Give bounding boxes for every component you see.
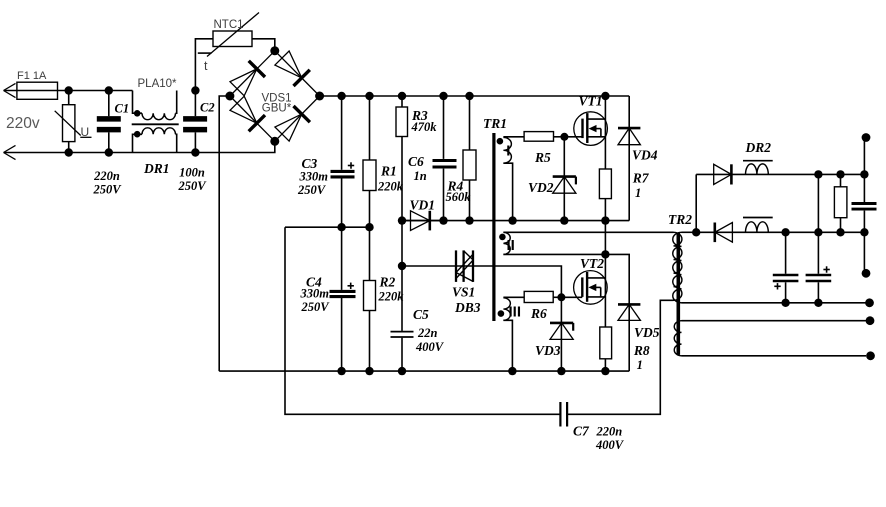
capacitor C7 220n 400V coupling bbox=[285, 227, 674, 452]
svg-text:R6: R6 bbox=[530, 306, 547, 321]
capacitor C2 100n 250V bbox=[177, 91, 214, 194]
svg-text:DR2: DR2 bbox=[745, 140, 772, 155]
terminal: secondary2 lead B bbox=[866, 351, 875, 360]
svg-text:330m: 330m bbox=[300, 287, 330, 301]
wire: AC neutral bottom with input arrow, up to bridge AC2 corner bbox=[4, 141, 275, 159]
phase dot: TR1 winding III bbox=[498, 310, 505, 317]
wire: VT1 drain-source vertical bbox=[604, 96, 606, 221]
filter choke DR2 lower bbox=[743, 218, 773, 233]
svg-text:t: t bbox=[204, 59, 208, 73]
resistor R7 1 bbox=[599, 169, 649, 200]
transformer TR1 core bbox=[483, 116, 507, 321]
node: bridge AC1 corner (top) bbox=[270, 46, 279, 55]
svg-text:VS1: VS1 bbox=[452, 285, 475, 300]
node: C1 top junction bbox=[105, 86, 113, 94]
resistor R1 220k bbox=[363, 96, 404, 227]
resistor output load bbox=[834, 174, 847, 232]
phase dot: DR1 top winding bbox=[134, 110, 141, 117]
capacitor C1 220n 250V bbox=[92, 91, 129, 197]
thermistor NTC1 with t mark bbox=[198, 13, 259, 74]
svg-text:C5: C5 bbox=[413, 307, 429, 322]
svg-text:DB3: DB3 bbox=[454, 300, 481, 315]
svg-text:TR1: TR1 bbox=[483, 116, 507, 131]
svg-text:GBU*: GBU* bbox=[262, 103, 292, 115]
node: C2 top junction with NTC branch bbox=[191, 86, 199, 94]
wire: AC line top segment with input arrow bbox=[4, 83, 133, 97]
wire: output positive branch bbox=[696, 173, 864, 175]
svg-text:C7: C7 bbox=[573, 424, 590, 439]
fuse F1 1A bbox=[17, 70, 58, 99]
node: bottom bus junctions bbox=[337, 367, 609, 375]
node: +rail junctions (C3,R1,R3,C6,R4,VT1 drain) bbox=[337, 92, 609, 100]
svg-text:U: U bbox=[81, 125, 90, 139]
phase dot: TR1 winding I bbox=[497, 138, 504, 145]
node: bridge positive corner (right) bbox=[315, 92, 324, 101]
node: fuse-varistor junction top bbox=[65, 86, 73, 94]
svg-text:R2: R2 bbox=[379, 275, 396, 290]
wire: NTC1 left lead from line bbox=[195, 39, 213, 91]
diode VD5 bbox=[618, 304, 660, 340]
wire: bridge negative to bottom bus bbox=[219, 96, 230, 371]
node: midpoint junction C3/C4 bbox=[337, 223, 345, 231]
svg-text:220n: 220n bbox=[596, 425, 623, 439]
node: C1 bottom junction bbox=[105, 148, 113, 156]
svg-text:220k: 220k bbox=[377, 180, 404, 194]
svg-text:R5: R5 bbox=[534, 150, 551, 165]
svg-text:250V: 250V bbox=[301, 300, 331, 314]
resistor R4 560k bbox=[446, 96, 477, 221]
node: winding II bottom / VT2 drain junction bbox=[601, 250, 609, 258]
diac VS1 DB3 trigger branch bbox=[402, 250, 561, 315]
diode VD7 output lower bbox=[715, 223, 733, 243]
svg-text:1: 1 bbox=[635, 186, 641, 200]
svg-text:PLA10*: PLA10* bbox=[138, 78, 178, 90]
node: C2 bottom junction bbox=[191, 148, 199, 156]
resistor R8 1 bbox=[600, 327, 650, 372]
svg-text:R7: R7 bbox=[632, 171, 650, 186]
wire: capacitor midpoint bus bbox=[285, 226, 370, 228]
svg-text:DR1: DR1 bbox=[143, 161, 170, 176]
svg-text:II: II bbox=[507, 237, 515, 254]
transformer TR2 primary winding bbox=[674, 232, 682, 300]
node: VT1 gate junction bbox=[560, 133, 568, 141]
resistor R3 470k bbox=[396, 96, 437, 221]
node: output branch junctions bbox=[781, 170, 868, 307]
svg-text:100n: 100n bbox=[179, 166, 205, 180]
svg-text:250V: 250V bbox=[297, 183, 327, 197]
phase dot: DR1 bottom winding bbox=[134, 131, 141, 138]
node: varistor bottom junction bbox=[65, 148, 73, 156]
capacitor output HF bbox=[852, 138, 877, 274]
svg-text:III: III bbox=[509, 304, 522, 321]
svg-text:1n: 1n bbox=[414, 169, 427, 183]
node: secondary tap junction bbox=[692, 228, 700, 236]
svg-text:250V: 250V bbox=[92, 183, 122, 197]
svg-text:C2: C2 bbox=[200, 101, 215, 115]
wire: half-bridge upper cell bottom wire bbox=[402, 220, 629, 222]
svg-text:VD2: VD2 bbox=[528, 180, 554, 195]
MOSFET VT2 bbox=[561, 256, 607, 304]
zener diode VD2 bbox=[528, 137, 576, 221]
diode VD6 output upper bbox=[714, 164, 732, 184]
transformer TR2 secondary winding 1 bbox=[673, 232, 866, 302]
svg-text:400V: 400V bbox=[415, 340, 445, 354]
svg-text:560k: 560k bbox=[446, 190, 472, 204]
wire: VD5 branch bbox=[605, 254, 629, 371]
svg-text:400V: 400V bbox=[595, 438, 625, 452]
wire: NTC1 right lead to bridge AC1 corner bbox=[252, 39, 275, 51]
svg-text:1: 1 bbox=[637, 358, 643, 372]
svg-text:250V: 250V bbox=[177, 179, 207, 193]
transformer TR2 secondary winding 2 bbox=[674, 321, 866, 356]
capacitor C3 330m 250V electrolytic bbox=[297, 96, 355, 227]
svg-text:VT1: VT1 bbox=[579, 94, 603, 109]
svg-text:VD3: VD3 bbox=[535, 343, 561, 358]
wire: half-bridge midpoint link bbox=[604, 221, 606, 255]
terminal: +V output bbox=[862, 133, 871, 142]
svg-text:22n: 22n bbox=[417, 326, 438, 340]
svg-text:R1: R1 bbox=[380, 164, 397, 179]
svg-text:220n: 220n bbox=[93, 169, 120, 183]
svg-text:VT2: VT2 bbox=[580, 256, 604, 271]
common-mode choke DR1 PLA10* bbox=[132, 78, 179, 176]
node: VT2 gate junction bbox=[557, 293, 565, 301]
phase dot: TR1 winding II bbox=[499, 234, 506, 241]
svg-text:F1 1A: F1 1A bbox=[17, 70, 47, 82]
wire: +DC rail bbox=[320, 95, 630, 97]
terminal: secondary2 lead A bbox=[866, 316, 875, 325]
transformer TR1 winding I bbox=[503, 137, 523, 221]
svg-text:C6: C6 bbox=[408, 154, 424, 169]
node: bridge negative corner (left) bbox=[225, 92, 234, 101]
svg-text:330m: 330m bbox=[299, 170, 329, 184]
wire: output lower branch bbox=[696, 231, 864, 233]
varistor RU with U label bbox=[55, 91, 92, 153]
transformer TR2 core bbox=[668, 212, 692, 355]
svg-text:I: I bbox=[506, 143, 510, 160]
capacitor C6 1n bbox=[408, 96, 457, 221]
svg-text:470k: 470k bbox=[411, 120, 438, 134]
wire: VT2 drain-source vertical bbox=[604, 254, 606, 371]
diode VD1 bbox=[402, 198, 444, 231]
node: wire221 junctions (C6,R4,winding I,VD2,R7) bbox=[439, 216, 609, 224]
transformer TR1 winding II (feedback) bbox=[503, 232, 673, 254]
terminal: output return bbox=[862, 269, 871, 278]
svg-text:VD5: VD5 bbox=[634, 325, 660, 340]
capacitor C4 330m 250V electrolytic bbox=[300, 227, 356, 371]
node: VD1 anode / R3-C5 junction bbox=[398, 216, 406, 224]
electrolytic capacitor output A bbox=[773, 232, 799, 302]
node: midpoint junction R1/R2 bbox=[365, 223, 373, 231]
svg-text:VD1: VD1 bbox=[410, 198, 436, 213]
resistor R2 220k bbox=[364, 227, 405, 371]
resistor R6 bbox=[524, 291, 561, 321]
filter choke DR2 upper bbox=[743, 140, 773, 174]
wire: negative DC bus bbox=[219, 370, 629, 372]
electrolytic capacitor output B bbox=[806, 174, 832, 302]
bridge rectifier VDS1 GBU* bbox=[230, 51, 320, 142]
terminal: secondary1 ground bbox=[865, 298, 874, 307]
capacitor C5 22n 400V bbox=[391, 221, 445, 372]
diode VD4 bbox=[618, 96, 658, 221]
svg-text:C1: C1 bbox=[115, 102, 130, 116]
transformer TR1 winding III bbox=[503, 297, 524, 371]
resistor R5 bbox=[524, 132, 564, 165]
svg-text:R8: R8 bbox=[633, 343, 650, 358]
svg-text:220k: 220k bbox=[378, 290, 405, 304]
node: diac junction on R3/C5 line bbox=[398, 262, 406, 270]
node: bridge AC2 corner (bottom) bbox=[270, 137, 279, 146]
svg-text:NTC1: NTC1 bbox=[214, 19, 244, 31]
MOSFET VT1 bbox=[564, 94, 607, 146]
svg-text:TR2: TR2 bbox=[668, 212, 692, 227]
svg-text:VD4: VD4 bbox=[632, 148, 658, 163]
wire: rectifier branch riser bbox=[695, 174, 697, 232]
svg-text:220v: 220v bbox=[6, 115, 40, 132]
zener diode VD3 bbox=[535, 297, 573, 371]
